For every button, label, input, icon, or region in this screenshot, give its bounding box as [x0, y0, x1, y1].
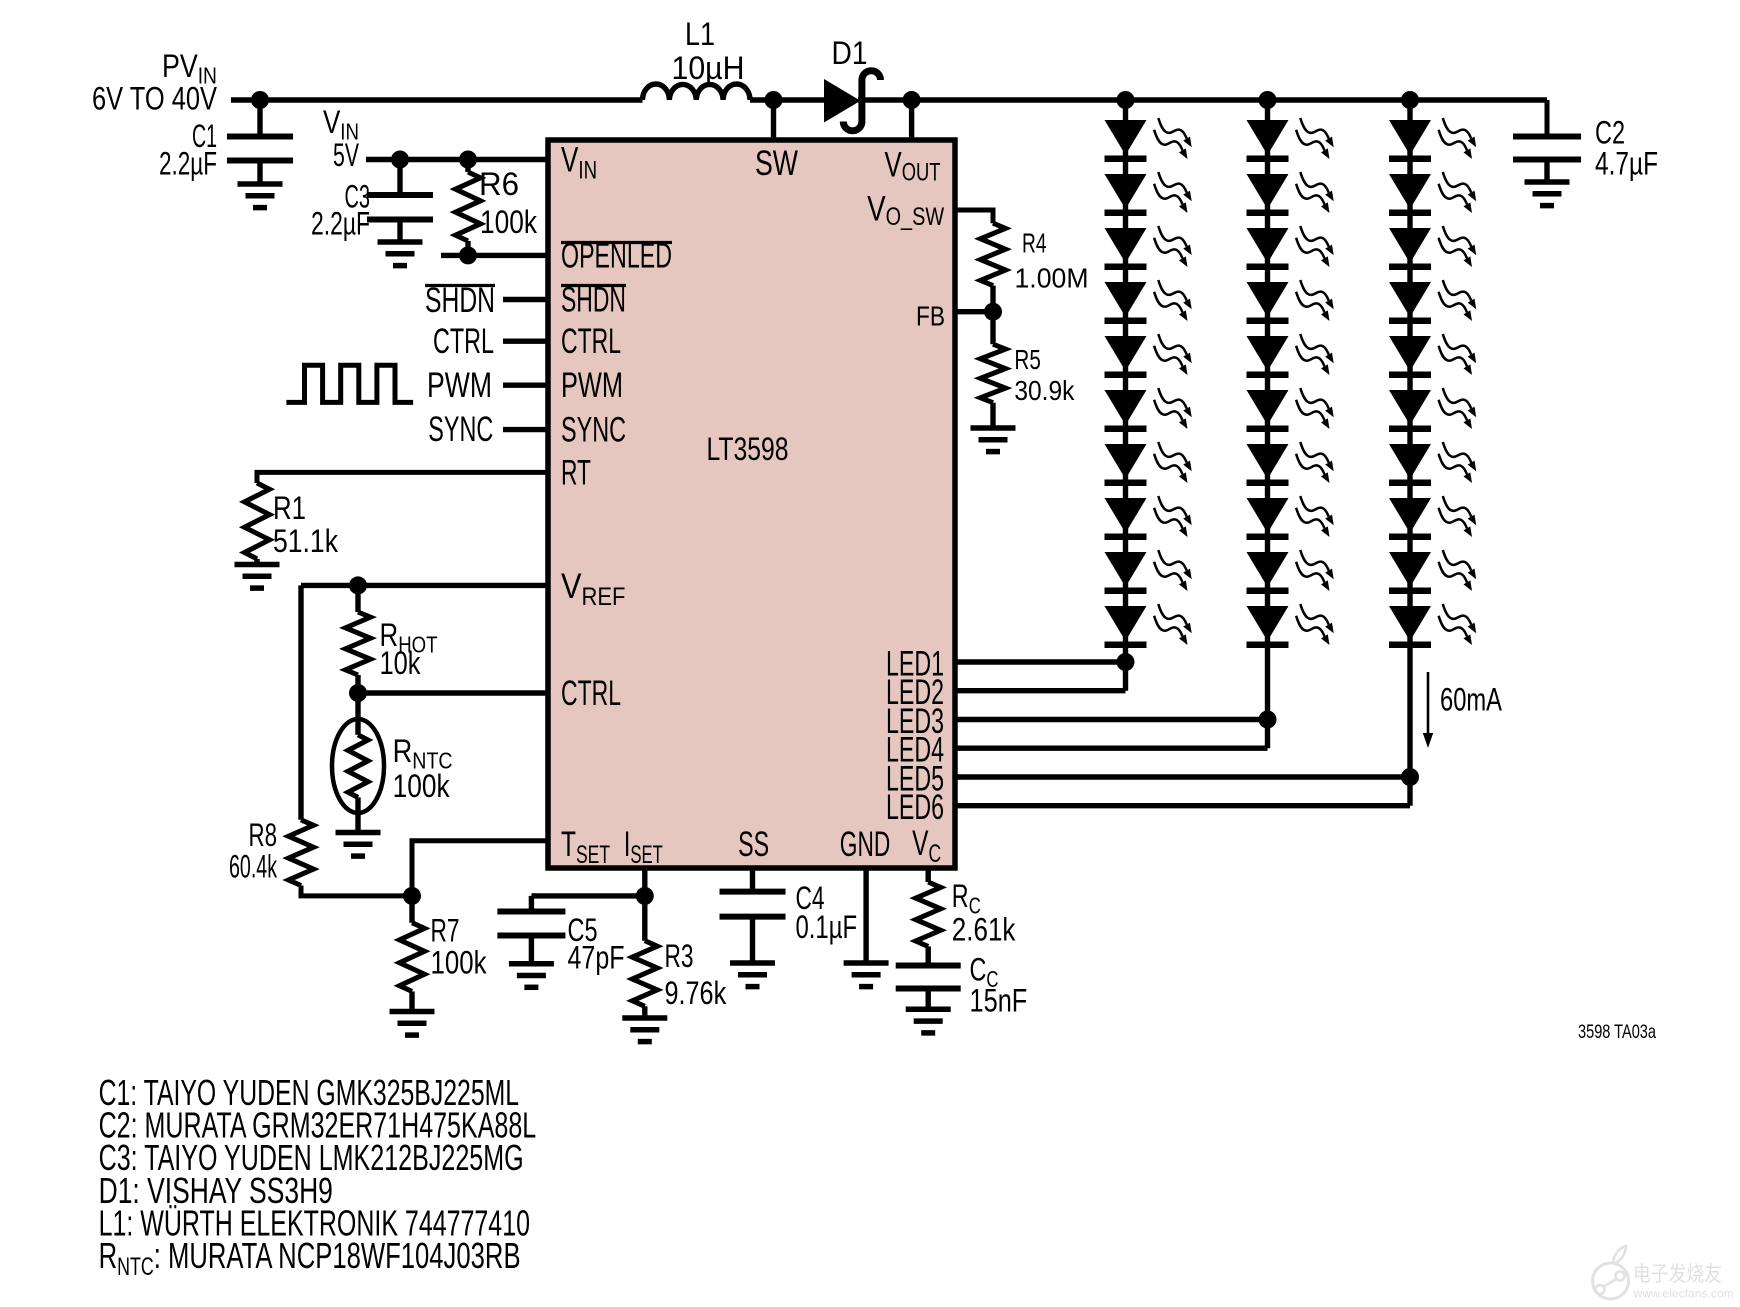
svg-text:PV: PV [162, 48, 198, 84]
svg-text:60.4k: 60.4k [229, 849, 278, 885]
svg-text:R5: R5 [1014, 344, 1041, 375]
svg-text:R3: R3 [665, 938, 694, 974]
svg-text:R6: R6 [479, 166, 519, 202]
svg-text:6V TO 40V: 6V TO 40V [92, 81, 218, 117]
svg-text:10k: 10k [380, 645, 422, 681]
svg-text:IN: IN [578, 157, 597, 185]
svg-text:9.76k: 9.76k [665, 975, 727, 1011]
svg-text:V: V [561, 567, 582, 606]
svg-text:LT3598: LT3598 [707, 431, 789, 467]
svg-text:RT: RT [561, 453, 591, 492]
svg-text:30.9k: 30.9k [1014, 375, 1075, 406]
svg-text:3598 TA03a: 3598 TA03a [1578, 1021, 1656, 1043]
svg-text:LED6: LED6 [886, 788, 944, 827]
svg-text:SW: SW [755, 144, 798, 183]
svg-text:V: V [912, 824, 929, 863]
svg-text:C: C [929, 840, 942, 868]
svg-text:R7: R7 [431, 913, 460, 949]
svg-text:100k: 100k [393, 768, 451, 804]
svg-text:100k: 100k [480, 204, 538, 240]
svg-text:SET: SET [576, 841, 610, 869]
svg-text:R: R [952, 878, 969, 914]
svg-text:www.elecfans.com: www.elecfans.com [1633, 1287, 1734, 1301]
svg-text:CTRL: CTRL [433, 322, 494, 361]
svg-text:4.7µF: 4.7µF [1595, 146, 1658, 182]
svg-text:R: R [99, 1235, 118, 1276]
svg-text:60mA: 60mA [1440, 682, 1502, 718]
svg-text:OUT: OUT [902, 159, 941, 187]
svg-text:2.2µF: 2.2µF [311, 206, 370, 242]
svg-text:1.00M: 1.00M [1015, 263, 1089, 294]
svg-text:2.61k: 2.61k [952, 912, 1016, 948]
svg-text:GND: GND [840, 825, 891, 864]
svg-text:SET: SET [630, 841, 663, 869]
svg-text:5V: 5V [333, 137, 359, 173]
svg-text:CTRL: CTRL [561, 674, 621, 713]
svg-text:PWM: PWM [427, 366, 492, 405]
svg-text:V: V [323, 104, 341, 140]
svg-text:T: T [561, 825, 576, 864]
svg-text:O_SW: O_SW [886, 203, 945, 231]
svg-text:L1: L1 [685, 16, 715, 52]
svg-text:SYNC: SYNC [428, 410, 493, 449]
svg-text:电子发烧友: 电子发烧友 [1633, 1263, 1722, 1286]
svg-text:: MURATA NCP18WF104J03RB: : MURATA NCP18WF104J03RB [154, 1235, 521, 1276]
svg-text:R4: R4 [1022, 228, 1047, 259]
svg-text:2.2µF: 2.2µF [159, 146, 217, 182]
svg-text:15nF: 15nF [970, 982, 1028, 1018]
svg-text:10µH: 10µH [672, 50, 745, 86]
svg-text:100k: 100k [431, 945, 488, 981]
svg-text:R1: R1 [273, 490, 306, 526]
svg-text:47pF: 47pF [568, 940, 625, 976]
svg-text:PWM: PWM [561, 366, 623, 405]
svg-text:NTC: NTC [117, 1253, 154, 1281]
svg-text:V: V [867, 190, 886, 229]
svg-text:R: R [393, 733, 413, 769]
svg-text:V: V [561, 141, 579, 180]
svg-text:CTRL: CTRL [561, 322, 621, 361]
svg-text:SYNC: SYNC [561, 411, 626, 450]
svg-text:0.1µF: 0.1µF [796, 909, 858, 945]
svg-text:FB: FB [916, 301, 945, 332]
svg-text:D1: D1 [832, 35, 868, 71]
svg-text:SS: SS [738, 825, 769, 864]
svg-text:V: V [885, 146, 903, 185]
svg-text:REF: REF [582, 583, 626, 611]
svg-text:51.1k: 51.1k [273, 523, 339, 559]
